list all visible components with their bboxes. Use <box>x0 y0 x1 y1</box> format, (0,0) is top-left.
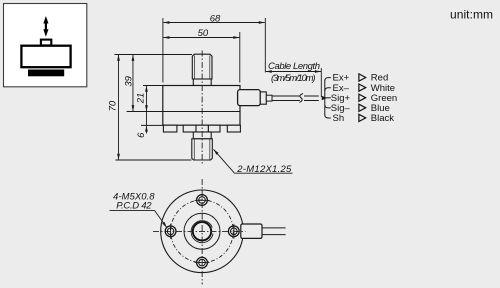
triangle marker Red <box>359 74 366 81</box>
cable gland nub <box>266 95 272 101</box>
front view centerline <box>201 51 203 165</box>
svg-text:Black: Black <box>371 113 394 124</box>
cable end junction arrow <box>322 96 327 100</box>
center bore <box>193 222 211 240</box>
cable (front view) <box>272 96 319 101</box>
dimension 50 <box>163 28 239 39</box>
cable break mark <box>300 94 304 103</box>
extension line top (stud top) <box>115 54 193 56</box>
top stud neck <box>193 79 211 86</box>
wire color White <box>371 83 395 94</box>
icon body <box>21 46 70 67</box>
svg-text:P.C.D 42: P.C.D 42 <box>116 201 152 212</box>
cable gland middle <box>260 92 266 104</box>
extension line body bottom left <box>141 124 163 126</box>
extension line cable end <box>320 68 322 97</box>
body <box>163 86 240 126</box>
triangle marker Green <box>359 94 366 101</box>
svg-text:50: 50 <box>198 28 209 39</box>
triangle marker Black <box>359 114 366 121</box>
load-cell icon box <box>4 4 87 87</box>
icon base bar <box>28 70 64 77</box>
wire branch to Sig- <box>325 105 331 108</box>
screw hole right <box>228 224 239 239</box>
wire branch to Ex+ <box>325 78 331 81</box>
wire branch to Sig+ <box>325 97 331 99</box>
dimension 70 <box>108 55 120 160</box>
extension line body top left <box>143 85 163 87</box>
label 2-M12x1.25 <box>214 149 293 175</box>
dimension 39 <box>124 55 135 111</box>
svg-text:unit:mm: unit:mm <box>450 8 493 22</box>
label 4-M5x0.8 / P.C.D 42 <box>110 192 167 228</box>
unit:mm label <box>450 8 493 22</box>
bottom view horizontal centerline <box>153 230 246 232</box>
bottom tab 4 <box>208 125 220 132</box>
icon stub <box>41 40 51 46</box>
bottom stud neck <box>193 132 211 139</box>
bottom view outer circle <box>161 190 244 273</box>
screw hole top <box>195 195 210 206</box>
wire label Sig+ <box>331 93 351 104</box>
wire label Ex- <box>333 83 350 94</box>
svg-text:68: 68 <box>210 14 221 25</box>
P.C.D 42 bolt circle <box>171 200 234 263</box>
icon force arrow <box>43 16 48 37</box>
wire color Green <box>371 93 397 104</box>
top stud M12 <box>192 54 212 79</box>
bottom tab 3 <box>196 125 208 132</box>
wire bus line <box>324 81 326 116</box>
extension line bottom (stud bottom) <box>115 159 191 161</box>
bottom tab 5 <box>227 125 240 132</box>
bottom tab 1 <box>163 125 177 132</box>
dimension 6 <box>136 126 148 138</box>
svg-text:Sh: Sh <box>333 113 345 124</box>
svg-text:2-M12X1.25: 2-M12X1.25 <box>236 164 292 175</box>
dimension 68 <box>163 14 264 25</box>
extension line left (68/50) <box>162 18 164 83</box>
svg-text:(3m/5m/10m): (3m/5m/10m) <box>271 73 316 84</box>
extension line right of 50 <box>239 32 241 83</box>
wire branch to Ex- <box>325 88 331 91</box>
wire branch to Sh <box>325 115 331 118</box>
triangle marker Blue <box>359 104 366 111</box>
wire color Blue <box>371 103 390 114</box>
wire color Red <box>371 73 388 84</box>
cable length dimension <box>266 61 321 84</box>
gland (bottom view) <box>241 224 262 238</box>
bottom view vertical centerline <box>201 179 203 285</box>
wire label Sh <box>333 113 345 124</box>
cable gland large <box>238 90 261 106</box>
svg-text:70: 70 <box>108 100 119 111</box>
triangle marker White <box>359 84 366 91</box>
center bore thread arc <box>191 221 213 243</box>
dimension 21 <box>136 86 148 134</box>
bottom stud M12 <box>192 139 213 160</box>
wire label Sig- <box>331 103 351 114</box>
body mid line <box>127 111 240 113</box>
screw hole bottom <box>195 257 210 268</box>
wire label Ex+ <box>333 73 350 84</box>
svg-text:39: 39 <box>124 75 135 86</box>
svg-text:6: 6 <box>136 132 147 138</box>
screw hole left <box>165 224 176 239</box>
bottom tab 2 <box>183 125 196 132</box>
svg-text:Cable Length: Cable Length <box>268 61 320 72</box>
extension line right of 68 <box>264 18 266 73</box>
wire color Black <box>371 113 394 124</box>
svg-text:21: 21 <box>136 93 147 105</box>
cable (bottom view) <box>262 228 286 235</box>
center boss circle <box>184 213 220 249</box>
